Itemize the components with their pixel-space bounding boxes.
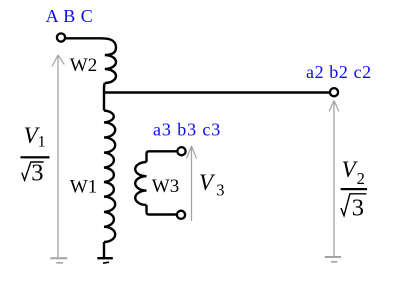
label V1/sqrt(3) fraction <box>21 123 50 187</box>
voltage arrow V3 (tertiary, gray) <box>187 146 197 221</box>
label V2/sqrt(3) fraction <box>341 157 368 221</box>
wire terminal a3 to winding W3 <box>147 151 178 162</box>
ground reference left (gray) <box>50 258 67 263</box>
wire W1 bottom to ground <box>103 242 105 258</box>
svg-text:2: 2 <box>357 169 365 188</box>
svg-text:3: 3 <box>216 181 224 200</box>
wire W2 to junction <box>103 83 106 111</box>
svg-text:a3 b3 c3: a3 b3 c3 <box>153 120 221 140</box>
svg-text:1: 1 <box>38 133 46 150</box>
wire junction to terminal a2 <box>104 91 330 93</box>
svg-text:W2: W2 <box>70 55 97 76</box>
svg-text:V: V <box>199 170 216 195</box>
winding W1 (common winding, 9 turns) <box>104 111 115 243</box>
label V3 (tertiary voltage) <box>199 170 225 200</box>
wire winding W3 to terminal x3 <box>147 205 178 215</box>
svg-text:a2 b2 c2: a2 b2 c2 <box>306 62 372 82</box>
svg-text:W3: W3 <box>152 176 179 197</box>
svg-text:A B C: A B C <box>46 6 94 26</box>
voltage arrow V2 (secondary-to-ground, gray) <box>329 101 339 257</box>
terminal a2 (secondary tap) <box>330 88 338 96</box>
winding W3 (tertiary winding, 3 turns) <box>135 162 146 205</box>
terminal x3 <box>177 211 185 219</box>
wire from terminal A to winding W2 <box>66 37 101 39</box>
ground reference right (gray) <box>325 257 341 262</box>
svg-text:W1: W1 <box>70 176 97 197</box>
svg-text:3: 3 <box>352 194 364 221</box>
terminal a3 <box>177 147 185 155</box>
voltage arrow V1 (phase-to-ground, gray) <box>52 55 64 257</box>
ground (neutral, black) <box>97 258 113 263</box>
terminal A (phase input) <box>57 33 65 41</box>
winding W2 (series winding, 3 turns) <box>101 38 117 83</box>
svg-text:3: 3 <box>31 160 43 187</box>
